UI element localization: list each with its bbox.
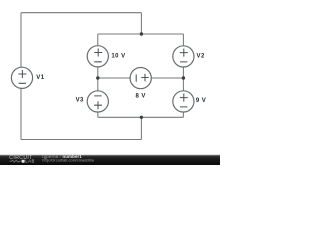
svg-text:http:⁄⁄circuitlab.com⁄cmadd6la: http:⁄⁄circuitlab.com⁄cmadd6la: [42, 158, 94, 163]
voltage source V1: [11, 67, 32, 88]
wire mid drop top: [140, 13, 142, 34]
wire top from V1 to mid drop: [21, 12, 141, 14]
voltage source V2 (top right of bridge): [173, 46, 194, 67]
watermark credit text: [42, 154, 94, 163]
wire right column top lead: [182, 34, 184, 46]
voltage source 9 V (bottom right of bridge): [173, 91, 194, 112]
node junction right mid: [182, 76, 185, 79]
wire left lower (V1 bottom lead): [20, 88, 22, 139]
node junction top mid: [140, 32, 143, 35]
voltage source 10 V (top left of bridge): [87, 46, 108, 67]
wire middle left (to 8V): [98, 77, 130, 79]
node junction left mid: [96, 76, 99, 79]
voltage source V3 (bottom left of bridge, minus on top): [87, 91, 108, 112]
wire mid drop bottom: [140, 117, 142, 139]
voltage source 8 V (middle, rotated, minus left plus right): [130, 68, 151, 89]
svg-text:V3: V3: [76, 97, 84, 103]
svg-text:9 V: 9 V: [196, 98, 206, 104]
svg-text:LAB: LAB: [25, 159, 34, 164]
wire right column mid lead: [182, 67, 184, 91]
svg-text:V2: V2: [197, 54, 205, 60]
svg-text:8 V: 8 V: [136, 94, 146, 100]
svg-text:10 V: 10 V: [111, 54, 125, 60]
svg-text:V1: V1: [36, 75, 44, 81]
wire middle right (from 8V): [151, 77, 183, 79]
wire left column top lead: [97, 34, 99, 46]
wire left column mid lead: [97, 67, 99, 91]
watermark logo CIRCUIT LAB: [9, 155, 34, 164]
wire bridge top: [98, 33, 184, 35]
wire bottom from V1 to mid drop: [21, 139, 141, 141]
wire right column bottom lead: [182, 112, 184, 117]
wire left upper (V1 top lead): [20, 13, 22, 67]
node junction bottom mid: [140, 116, 143, 119]
wire bridge bottom: [98, 116, 184, 118]
watermark bar: [0, 155, 220, 165]
wire left column bottom lead: [97, 112, 99, 117]
